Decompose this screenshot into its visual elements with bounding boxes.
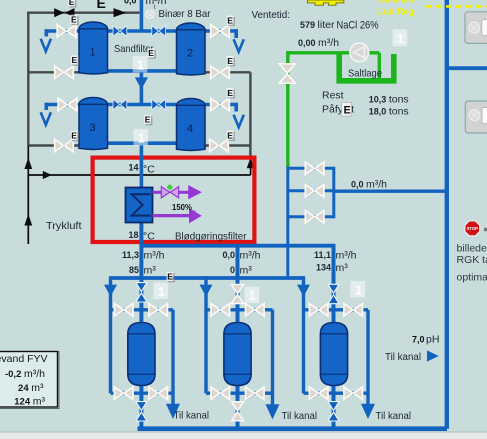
svg-text:4: 4	[187, 123, 193, 135]
svg-text:Til kanal: Til kanal	[282, 410, 318, 422]
svg-text:optimal: optimal	[457, 271, 487, 283]
svg-text:RGK ta: RGK ta	[457, 254, 487, 266]
svg-text:0,0 m³/h: 0,0 m³/h	[351, 179, 387, 191]
svg-text:°C: °C	[143, 231, 155, 243]
svg-text:Til kanal: Til kanal	[376, 410, 412, 422]
svg-text:Blødgøringsfilter: Blødgøringsfilter	[175, 230, 247, 242]
svg-text:134: 134	[316, 263, 331, 273]
svg-text:Ventetid:: Ventetid:	[252, 9, 291, 21]
svg-text:Saltlage: Saltlage	[348, 68, 382, 80]
svg-text:150%: 150%	[172, 203, 192, 212]
svg-text:STOP: STOP	[467, 226, 479, 231]
svg-text:pH: pH	[426, 334, 439, 346]
svg-text:m³: m³	[336, 262, 349, 274]
svg-text:18: 18	[128, 230, 138, 240]
svg-text:E: E	[344, 105, 351, 117]
svg-text:0: 0	[230, 265, 235, 275]
svg-text:m³/h: m³/h	[144, 249, 165, 261]
svg-text:Binær 8 Bar: Binær 8 Bar	[159, 8, 211, 20]
svg-text:Trykluft: Trykluft	[46, 220, 82, 232]
svg-text:0,0: 0,0	[222, 250, 235, 260]
svg-text:3: 3	[89, 122, 95, 134]
svg-text:E: E	[97, 0, 106, 11]
svg-text:m³/h: m³/h	[240, 249, 261, 261]
svg-text:m³/h: m³/h	[336, 249, 357, 261]
svg-text:24 m³: 24 m³	[18, 382, 44, 394]
svg-text:Til kanal: Til kanal	[174, 410, 210, 422]
svg-text:18,0 tons: 18,0 tons	[369, 106, 409, 118]
svg-text:Rest: Rest	[322, 90, 344, 102]
svg-text:m³: m³	[144, 264, 157, 276]
svg-text:Gammel: Gammel	[378, 0, 414, 5]
svg-text:m³/h: m³/h	[146, 0, 167, 7]
svg-text:m³: m³	[240, 264, 253, 276]
svg-text:1: 1	[89, 47, 95, 59]
svg-text:11,1: 11,1	[314, 250, 331, 260]
svg-text:2: 2	[187, 48, 193, 60]
svg-text:85: 85	[129, 265, 139, 275]
svg-text:Lud Reg: Lud Reg	[378, 7, 414, 17]
svg-text:NaCl 26%: NaCl 26%	[337, 20, 379, 32]
svg-text:10,3 tons: 10,3 tons	[369, 94, 409, 106]
svg-text:7,0: 7,0	[412, 334, 425, 344]
svg-text:Til kanal: Til kanal	[385, 351, 421, 363]
svg-text:0,00 m³/h: 0,00 m³/h	[298, 37, 339, 49]
svg-text:0,0: 0,0	[124, 0, 137, 6]
svg-text:11,3: 11,3	[122, 250, 139, 260]
svg-text:-0,2 m³/h: -0,2 m³/h	[5, 368, 45, 380]
svg-text:billede: billede	[457, 243, 487, 255]
svg-text:14: 14	[128, 162, 138, 172]
svg-text:°C: °C	[143, 163, 155, 175]
svg-text:124 m³: 124 m³	[14, 396, 45, 408]
svg-text:evand FYV: evand FYV	[0, 353, 48, 365]
svg-text:579 liter: 579 liter	[300, 19, 335, 31]
